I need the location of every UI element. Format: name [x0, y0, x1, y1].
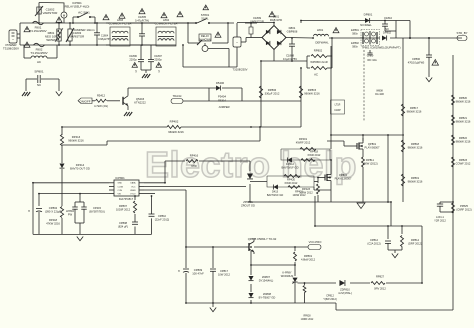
svg-text:NC: NC — [385, 27, 389, 31]
svg-text:RP802: RP802 — [314, 49, 323, 53]
wire IC pin USEN — [144, 190, 186, 247]
svg-text:ICP801: ICP801 — [115, 176, 125, 180]
ground earth — [56, 92, 62, 96]
node vcc junction — [409, 37, 430, 39]
resistor RP823 — [452, 157, 471, 167]
svg-text:TP801 ICW20WEL(SUPAPePT): TP801 ICW20WEL(SUPAPePT) — [361, 46, 400, 50]
winding aux — [367, 50, 377, 62]
svg-text:T3108/250V: T3108/250V — [3, 47, 19, 51]
svg-text:COMMON FILTER: COMMON FILTER — [155, 22, 178, 26]
inductor L803 common mode choke — [106, 18, 131, 46]
svg-text:C1809: C1809 — [253, 16, 262, 20]
svg-text:0.1µF/275V: 0.1µF/275V — [283, 57, 297, 61]
svg-text:QP802: QP802 — [339, 173, 348, 177]
svg-text:PLAY/S6007: PLAY/S6007 — [365, 146, 380, 150]
svg-text:0RV 2012: 0RV 2012 — [374, 287, 386, 291]
svg-text:RP820: RP820 — [459, 96, 468, 100]
svg-text:BAV70/UF GD: BAV70/UF GD — [282, 166, 299, 170]
node junctions — [32, 20, 454, 304]
resistor RP827 — [371, 275, 386, 291]
svg-text:C1807: C1807 — [154, 54, 162, 58]
svg-text:CON: CON — [118, 190, 123, 192]
svg-text:CP812: CP812 — [326, 294, 334, 298]
svg-text:(824 µF): (824 µF) — [118, 225, 128, 229]
svg-text:RELAY: RELAY — [201, 34, 209, 38]
varistor C1803 — [66, 23, 84, 45]
wire jumper loop — [183, 88, 242, 101]
svg-text:RELAY(SELF-HLD): RELAY(SELF-HLD) — [65, 5, 90, 9]
svg-text:(C6RF 2012): (C6RF 2012) — [456, 208, 471, 212]
wire gate branch — [317, 178, 319, 203]
ground pair — [388, 250, 402, 258]
svg-text:TDA/AI: TDA/AI — [173, 94, 182, 98]
wire IC left — [33, 183, 109, 235]
net flag ON/OFF — [78, 98, 92, 104]
svg-text:ZD808: ZD808 — [263, 292, 271, 296]
wire gate line — [298, 282, 423, 284]
wire right net — [315, 196, 422, 283]
svg-text:CP812: CP812 — [370, 238, 379, 242]
svg-text:DA 42R: DA 42R — [375, 93, 384, 96]
svg-text:D5406: D5406 — [216, 81, 225, 85]
svg-text:DATA: DATA — [130, 182, 136, 185]
transistor QP805 — [246, 237, 277, 254]
svg-text:RP814: RP814 — [411, 238, 420, 242]
wire source — [314, 187, 331, 202]
svg-text:C1810: C1810 — [384, 16, 393, 20]
label drain net — [331, 100, 345, 114]
svg-text:USEN: USEN — [130, 190, 136, 192]
svg-text:RP418: RP418 — [310, 150, 319, 154]
svg-text:(DRF 2012): (DRF 2012) — [408, 242, 422, 246]
resistor RP822 — [452, 135, 471, 145]
snubber LCN1 — [434, 202, 453, 223]
svg-text:BAV70/UF GD: BAV70/UF GD — [267, 193, 284, 197]
thyristor KPR801 — [281, 271, 298, 304]
label W808 — [375, 90, 384, 97]
svg-text:L804: L804 — [163, 18, 170, 22]
wire varistor branch — [39, 3, 64, 19]
resistor RP415 — [60, 207, 74, 218]
svg-text:NC/RAEL: NC/RAEL — [360, 23, 372, 27]
connector CN801 — [233, 23, 248, 72]
wire secondary rail — [186, 246, 308, 248]
wire secondary gnd rail — [186, 299, 453, 310]
svg-text:CP802: CP802 — [49, 206, 58, 210]
svg-text:EP802: EP802 — [351, 41, 359, 45]
svg-text:CN80: CN80 — [367, 54, 374, 58]
svg-text:SP801: SP801 — [34, 70, 43, 74]
resistor RP423 — [299, 184, 319, 195]
warning triangle — [139, 9, 145, 14]
diode DP802 — [382, 35, 387, 40]
svg-text:960kW 3216: 960kW 3216 — [456, 140, 471, 144]
svg-text:VCC-PRO: VCC-PRO — [309, 240, 322, 244]
svg-text:CP817: CP817 — [220, 269, 229, 273]
svg-text:RP819: RP819 — [304, 254, 313, 258]
snubber network RP420 — [267, 175, 314, 189]
svg-text:FW: FW — [68, 213, 73, 217]
svg-text:(C2A 2012): (C2A 2012) — [367, 242, 380, 246]
warning triangle — [24, 42, 30, 47]
capacitor C1806 Y-cap — [129, 45, 144, 70]
ground chassis — [22, 92, 30, 96]
resistor RP811 — [362, 155, 378, 202]
svg-text:L801: L801 — [317, 28, 324, 32]
svg-text:RP418: RP418 — [49, 218, 58, 222]
svg-text:960kW 3216: 960kW 3216 — [408, 180, 423, 184]
connector P801 AC inlet — [3, 30, 19, 51]
resistor RP821 — [452, 115, 471, 125]
wire standby rail — [301, 21, 410, 39]
capacitor C1805 X-cap — [135, 15, 149, 45]
svg-text:470(10µ)(FW): 470(10µ)(FW) — [408, 61, 425, 65]
svg-text:K-PR8Y: K-PR8Y — [282, 271, 292, 275]
resistor RP416 — [186, 154, 199, 169]
wire fb line — [165, 160, 250, 162]
capacitor CP816 label — [323, 294, 337, 302]
svg-text:ON/OFF: ON/OFF — [79, 100, 90, 104]
svg-text:D801: D801 — [273, 15, 280, 19]
warning triangle top — [203, 5, 209, 10]
svg-text:DP412: DP412 — [286, 162, 295, 166]
wire emitter chain — [250, 251, 252, 303]
svg-text:RP823: RP823 — [459, 158, 468, 162]
wire jog — [62, 127, 260, 145]
svg-text:C1805: C1805 — [138, 15, 147, 19]
diode DP412 — [282, 157, 299, 169]
capacitor CP802 bulk — [28, 206, 62, 226]
svg-text:RP420: RP420 — [287, 178, 296, 182]
resistor RP825 — [452, 203, 472, 213]
wire drain line — [331, 46, 402, 202]
IC ICP801 controller — [109, 176, 144, 201]
net flag VCC-PRO — [308, 240, 321, 250]
circuit breaker ICP801 — [61, 1, 89, 23]
warning triangle — [119, 13, 125, 18]
svg-text:DP801: DP801 — [364, 13, 373, 17]
svg-text:ZDP810: ZDP810 — [340, 288, 350, 292]
svg-text:100W 2012: 100W 2012 — [299, 191, 313, 195]
wire group2 — [250, 181, 318, 183]
svg-text:580x: 580x — [352, 32, 358, 36]
wire loop to feed — [242, 100, 301, 102]
capacitor C1807 Y-cap — [148, 45, 162, 70]
warning triangle — [161, 13, 167, 18]
svg-text:W808: W808 — [376, 90, 383, 93]
svg-text:960kW 3216: 960kW 3216 — [407, 110, 422, 114]
resistor RP824 gate — [303, 282, 306, 303]
diode DP413 — [267, 184, 306, 197]
svg-text:D413: D413 — [272, 190, 279, 194]
svg-text:1003F 2012: 1003F 2012 — [116, 208, 131, 212]
svg-text:C1804: C1804 — [101, 35, 109, 38]
inductor L802 — [31, 56, 47, 64]
svg-text:AC SW1: AC SW1 — [78, 11, 90, 15]
svg-text:RP821: RP821 — [459, 116, 468, 120]
diode DP411 — [241, 173, 255, 207]
transistor Q5403 — [123, 92, 146, 110]
svg-text:QP801: QP801 — [368, 142, 377, 146]
driver Q801 — [202, 43, 229, 67]
resistor RP814 — [401, 226, 423, 250]
wire divider — [402, 38, 404, 202]
wire gate QP801 — [327, 141, 357, 146]
svg-text:R5314: R5314 — [218, 99, 226, 103]
resistor RP818 — [401, 140, 423, 152]
capacitor CP415 pair — [72, 194, 105, 235]
svg-text:GBP808: GBP808 — [287, 30, 298, 34]
capacitor CP808 — [118, 221, 138, 229]
svg-text:WPF800 2L1R: WPF800 2L1R — [310, 60, 327, 64]
svg-text:T3108/250V: T3108/250V — [233, 68, 248, 72]
warning triangle — [103, 15, 109, 20]
wire to bridge AC1 — [241, 38, 262, 43]
resistor RP817 — [401, 104, 422, 116]
capacitor CP812 — [367, 226, 391, 250]
svg-text:960kW 3216: 960kW 3216 — [68, 139, 84, 143]
wire collector — [128, 88, 242, 92]
svg-text:WCR18LM: WCR18LM — [281, 274, 293, 278]
wire snubber vert — [249, 161, 251, 198]
svg-text:VARISTOR: VARISTOR — [70, 35, 84, 39]
diode DP414 — [59, 160, 89, 172]
svg-text:AC: AC — [314, 73, 318, 77]
ground secondary — [210, 303, 216, 312]
resistor RP413 — [60, 135, 84, 146]
ground — [77, 237, 83, 241]
wire RP807 branch — [134, 196, 136, 234]
svg-text:LT1R: LT1R — [335, 104, 341, 107]
svg-text:RP419: RP419 — [299, 137, 308, 141]
warning triangle — [333, 28, 339, 33]
svg-text:RP822: RP822 — [459, 136, 468, 140]
svg-text:0.47µF(TH): 0.47µF(TH) — [135, 19, 149, 23]
net flag STD-BY — [456, 31, 467, 41]
svg-text:50 FL: 50 FL — [201, 17, 209, 21]
svg-text:EP801: EP801 — [351, 28, 359, 32]
inductor L801 — [313, 28, 329, 45]
svg-text:10W 2012: 10W 2012 — [218, 273, 231, 277]
svg-text:C1808: C1808 — [286, 54, 295, 58]
wire gnd drops — [250, 122, 391, 226]
svg-text:RP423: RP423 — [302, 187, 311, 191]
wire relay coil branch — [188, 23, 228, 43]
transformer TP801 — [351, 28, 401, 50]
transistor QP802 — [318, 160, 352, 190]
bridge rectifier D801 — [262, 26, 298, 50]
fuse F802 — [30, 43, 47, 55]
wire CP810 branch — [151, 196, 153, 234]
resistor RP807 — [116, 201, 137, 213]
wire IC pin VCC — [144, 185, 246, 187]
svg-text:KIA7PC817: KIA7PC817 — [119, 197, 134, 201]
svg-text:330µF 2012: 330µF 2012 — [265, 92, 280, 96]
svg-text:4.2V(4HAL): 4.2V(4HAL) — [338, 291, 352, 295]
svg-text:RP413: RP413 — [72, 135, 81, 139]
svg-text:L803: L803 — [117, 18, 124, 22]
svg-text:100 47nF: 100 47nF — [192, 272, 204, 276]
fuse F801 — [29, 21, 46, 33]
wire spark gap branch — [26, 79, 59, 91]
svg-text:COMMON FILTER: COMMON FILTER — [109, 22, 132, 26]
resistor RP815 — [299, 86, 320, 98]
svg-text:100W (2012): 100W (2012) — [362, 162, 377, 166]
svg-text:960kW 3216: 960kW 3216 — [304, 92, 320, 96]
jumper P5404 — [218, 95, 230, 110]
capacitor CP810 — [149, 214, 170, 222]
svg-text:T3.15A/250V: T3.15A/250V — [30, 51, 47, 55]
svg-text:960kW 3216: 960kW 3216 — [408, 146, 423, 150]
capacitor CP817 — [210, 247, 231, 303]
svg-text:(390 X 22)µF: (390 X 22)µF — [45, 210, 61, 214]
svg-text:✕: ✕ — [178, 269, 181, 273]
net flag TDA — [171, 94, 183, 104]
wire relay bus — [176, 22, 234, 24]
svg-text:RP819: RP819 — [411, 176, 420, 180]
wire left bottom rail — [33, 233, 152, 235]
svg-text:Q5403: Q5403 — [136, 97, 145, 101]
wire hv ladder — [452, 55, 454, 299]
svg-text:RP815: RP815 — [308, 88, 317, 92]
capacitor C1808 — [283, 38, 297, 61]
wire switch branch — [73, 17, 95, 23]
wire on/off chain — [61, 127, 63, 234]
varistor C1802 — [35, 6, 57, 23]
zener ZDP810 — [338, 280, 352, 295]
svg-text:2200p: 2200p — [129, 58, 137, 62]
svg-text:580x: 580x — [352, 45, 358, 49]
resistor R5412 — [92, 94, 120, 109]
svg-text:C1806: C1806 — [129, 54, 137, 58]
wire B- rail — [261, 50, 307, 62]
svg-text:RP416: RP416 — [190, 154, 199, 158]
thermistor R801 NEG — [45, 23, 63, 45]
svg-text:KWR 2012: KWR 2012 — [308, 153, 321, 157]
svg-text:CP809: CP809 — [194, 268, 203, 272]
svg-text:VW: VW — [118, 194, 121, 196]
wire run/on line — [62, 126, 301, 128]
svg-text:DP414: DP414 — [76, 163, 85, 167]
svg-text:100RF 2012: 100RF 2012 — [301, 319, 314, 321]
ground chassis Q5403 — [124, 112, 132, 116]
svg-text:CLGB: CLGB — [118, 186, 124, 188]
svg-text:COWF 2012: COWF 2012 — [456, 162, 471, 166]
svg-text:DEFWAHL: DEFWAHL — [315, 41, 329, 45]
warning triangle — [215, 32, 221, 37]
svg-text:DY154(4AL): DY154(4AL) — [259, 279, 274, 283]
svg-text:R5412: R5412 — [97, 94, 106, 98]
svg-text:BAV70 OUT GD: BAV70 OUT GD — [70, 167, 90, 171]
svg-text:960kW 3216: 960kW 3216 — [168, 130, 184, 134]
svg-text:RP828: RP828 — [303, 316, 311, 318]
svg-text:CP806: CP806 — [412, 57, 421, 61]
svg-text:PLAY/CS6007: PLAY/CS6007 — [335, 177, 352, 181]
wire startup loop — [307, 38, 332, 68]
warning triangle — [177, 12, 183, 17]
svg-text:VARISTOR: VARISTOR — [43, 11, 58, 15]
zener ZD808 — [248, 292, 275, 300]
wire AC neutral bus — [20, 44, 176, 46]
wire drain QP801 — [363, 50, 364, 141]
capacitor C1804 — [94, 23, 111, 45]
svg-text:T3.15A/250V: T3.15A/250V — [29, 29, 46, 33]
svg-text:PP825: PP825 — [460, 204, 468, 208]
wire IC pin VTLO — [144, 193, 155, 195]
svg-text:RP806: RP806 — [268, 88, 277, 92]
svg-text:P5404: P5404 — [218, 95, 226, 99]
svg-text:RGB GHD: RGB GHD — [270, 18, 282, 22]
svg-text:RP817: RP817 — [410, 106, 419, 110]
svg-text:97W: 97W — [191, 164, 197, 168]
inductor L804 common mode choke — [130, 18, 177, 46]
capacitor CP809 — [178, 247, 204, 303]
svg-text:QP805 C5684-Y TO-92: QP805 C5684-Y TO-92 — [248, 237, 277, 241]
wire hot gnd rail — [248, 201, 391, 203]
svg-text:C1RP: C1RP — [334, 109, 341, 112]
wire IC pin DATA — [144, 161, 165, 183]
svg-text:GND: GND — [118, 183, 123, 185]
resistor RP802 — [307, 49, 332, 65]
svg-text:(BY587/7EU): (BY587/7EU) — [89, 210, 105, 214]
diode DP801 — [360, 13, 372, 28]
wire to bridge AC2 — [237, 23, 274, 26]
warning triangle — [56, 17, 62, 22]
spark gap SP801 — [34, 70, 43, 88]
wire vcc rail — [363, 37, 462, 39]
svg-text:0.68µ/275V: 0.68µ/275V — [98, 38, 111, 41]
svg-text:RP807: RP807 — [119, 204, 128, 208]
switch SW801 AC — [73, 11, 95, 33]
resistor RP806 — [259, 86, 279, 98]
svg-text:CP808: CP808 — [119, 221, 128, 225]
svg-text:(22nF 2012): (22nF 2012) — [155, 218, 170, 222]
wire L802 branch — [24, 45, 57, 58]
svg-text:2200p: 2200p — [154, 58, 162, 62]
wire AC live bus — [20, 22, 195, 24]
svg-text:BY-TB007 GD: BY-TB007 GD — [259, 296, 276, 300]
label RP828 — [301, 316, 314, 322]
warning triangle — [24, 27, 30, 32]
svg-text:LP802: LP802 — [66, 209, 74, 213]
svg-text:960kW 3216: 960kW 3216 — [456, 120, 471, 124]
svg-text:ZD807: ZD807 — [262, 275, 270, 279]
svg-text:NC: NC — [37, 83, 41, 87]
zener ZD807 — [248, 275, 273, 283]
capacitor C1810 — [382, 16, 396, 38]
svg-text:KWRF 2012: KWRF 2012 — [296, 141, 311, 145]
svg-text:RP402: RP402 — [170, 120, 179, 124]
wire feed left — [260, 61, 262, 127]
svg-text:JUMPER: JUMPER — [218, 105, 229, 109]
svg-text:5W/9W: 5W/9W — [46, 38, 56, 42]
svg-text:~: ~ — [236, 41, 238, 45]
svg-text:VCC: VCC — [131, 186, 136, 188]
relay contact ST801 — [195, 13, 210, 24]
resistor RP819 — [294, 252, 316, 262]
svg-text:Y2R 2012: Y2R 2012 — [434, 219, 446, 223]
warning triangle — [269, 12, 282, 23]
warning triangle — [432, 60, 439, 66]
ground hot — [357, 203, 365, 209]
resistor RP803 — [307, 67, 332, 77]
resistor RP819b — [401, 174, 423, 186]
wire branch scr — [251, 247, 295, 276]
resistor RP402 — [167, 120, 184, 135]
capacitor CP806 — [408, 38, 432, 77]
svg-text:RP811: RP811 — [366, 158, 374, 162]
svg-text:CP810: CP810 — [158, 214, 167, 218]
